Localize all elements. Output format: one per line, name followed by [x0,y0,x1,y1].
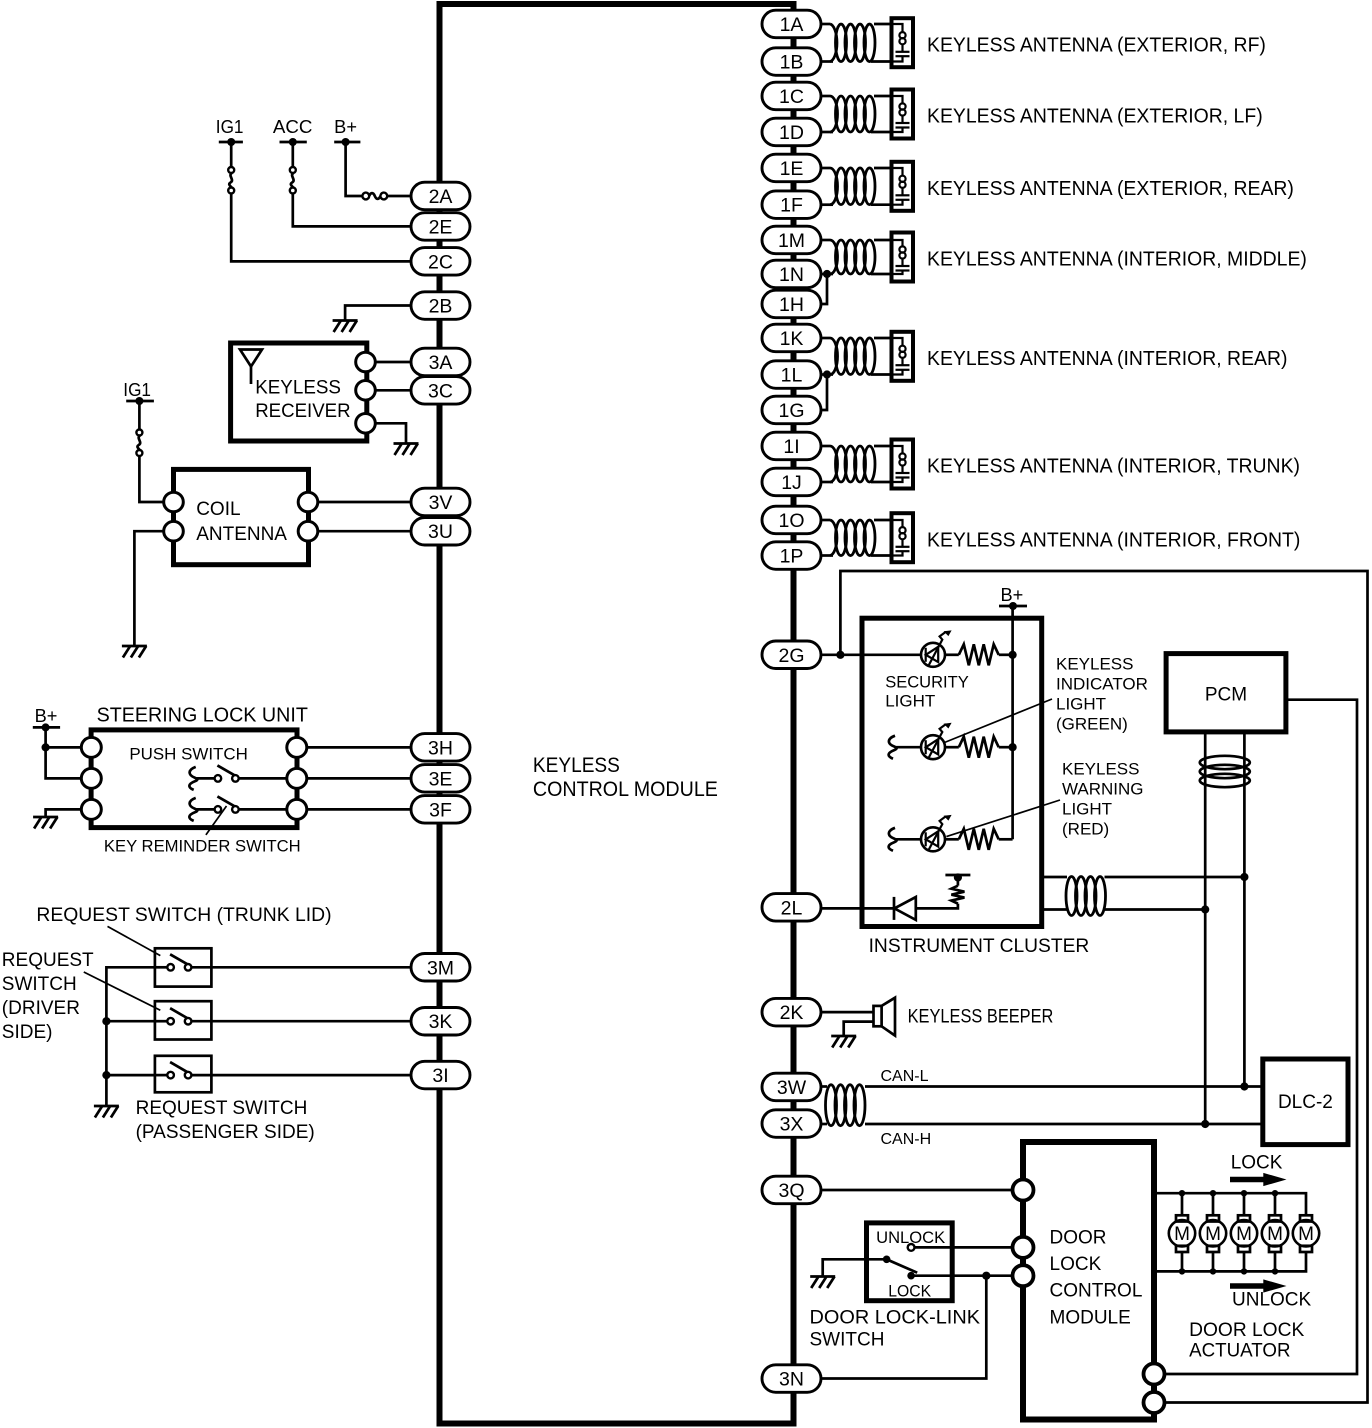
svg-text:3Q: 3Q [778,1180,804,1202]
callout indicator light [945,699,1053,743]
wire 3N to switch [821,1276,986,1379]
junction request passenger [102,1071,110,1079]
keyless antenna unit 4 [821,239,830,242]
junction row1 [1009,651,1017,659]
motor M3 [1243,1193,1246,1215]
PCM box [1166,654,1286,732]
svg-text:3N: 3N [779,1369,804,1391]
door lock-link switch box [867,1223,953,1301]
twisted pair coil PCM [1200,756,1250,769]
svg-text:DOOR LOCK: DOOR LOCK [1189,1320,1305,1341]
arrow unlock [1230,1279,1287,1292]
callout trunk lid [108,926,161,955]
svg-text:UNLOCK: UNLOCK [1232,1290,1312,1311]
wire PCM right [1165,700,1358,1374]
ground for beeper [831,1035,856,1038]
svg-text:(GREEN): (GREEN) [1056,714,1128,733]
svg-text:KEYLESS ANTENNA (INTERIOR, FRO: KEYLESS ANTENNA (INTERIOR, FRONT) [927,529,1300,551]
ground for coil antenna [122,645,147,648]
svg-text:CONTROL: CONTROL [1050,1281,1143,1302]
svg-text:SWITCH: SWITCH [810,1330,885,1351]
pin 3H [411,734,470,762]
junction 2G [836,651,844,659]
svg-text:LIGHT: LIGHT [1062,800,1112,819]
instrument cluster box [862,618,1042,926]
request switch trunk [155,966,167,969]
wire receiver to 3A [375,361,411,364]
svg-text:LIGHT: LIGHT [1056,694,1106,713]
pin 1H [762,290,821,318]
wire to 3H [307,746,411,749]
callout driver side [84,972,161,1010]
pin 2G [762,641,821,669]
svg-text:1M: 1M [778,230,805,252]
wire B+ to steering terminals [46,727,82,778]
svg-text:SECURITY: SECURITY [885,673,969,692]
keyless beeper [874,1006,882,1026]
twisted pair coil CAN [821,1085,827,1088]
push switch [189,767,197,790]
wire unlock contact to module [915,1246,1013,1249]
svg-text:KEYLESS: KEYLESS [1056,655,1134,674]
junction cluster bottom [1201,905,1209,913]
svg-text:1P: 1P [780,546,804,568]
svg-text:KEY REMINDER SWITCH: KEY REMINDER SWITCH [104,837,301,856]
request switch passenger box [155,1056,212,1093]
pin 1M [762,226,821,254]
wire bus to passenger switch [106,1074,154,1077]
wire 1L to 1G [821,375,827,411]
door module terminal right 2 [1144,1392,1165,1413]
svg-text:DOOR: DOOR [1050,1228,1107,1249]
ground for 2B [333,319,358,322]
wire to 3F [307,808,411,811]
svg-text:KEYLESS: KEYLESS [533,754,620,777]
svg-text:2L: 2L [781,897,803,919]
svg-text:REQUEST: REQUEST [2,950,94,971]
wire receiver to ground [375,423,406,442]
wire common to ground [823,1259,887,1275]
wire IG1 to 2C [231,194,411,262]
wire 2K to beeper [821,1011,874,1014]
svg-text:M: M [1174,1224,1190,1245]
steering terminal left 2 [81,768,101,788]
keyless antenna unit 3 [821,167,830,170]
keyless antenna unit 5 [821,337,830,340]
svg-text:KEYLESS: KEYLESS [255,378,341,399]
steering terminal right 2 [287,768,307,788]
callout warning light [946,800,1060,837]
steering terminal left 1 [81,737,101,757]
svg-text:1L: 1L [781,365,803,387]
svg-text:LOCK: LOCK [888,1281,932,1300]
svg-text:1I: 1I [783,436,799,458]
svg-text:M: M [1267,1224,1283,1245]
svg-text:DOOR LOCK-LINK: DOOR LOCK-LINK [810,1308,981,1329]
svg-text:3C: 3C [428,380,453,402]
junction 1N link [823,270,831,278]
pin 1I [762,432,821,460]
pin 1F [762,191,821,219]
junction row2 [1009,743,1017,751]
wire B+ into cluster [1011,606,1014,655]
DLC-2 box [1263,1059,1348,1145]
diode 2L [893,897,896,920]
antenna symbol [240,350,262,367]
junction request driver [102,1017,110,1025]
receiver terminal 2 [356,381,376,401]
svg-text:1G: 1G [778,400,804,422]
steering terminal left 3 [81,799,101,819]
wire IG1 to coil antenna [139,456,163,502]
door lock control module box [1023,1142,1154,1420]
coil antenna terminal right bottom [298,521,318,541]
wire to 3E [307,777,411,780]
svg-text:1C: 1C [779,86,804,108]
wire receiver to 3C [375,389,411,392]
coil antenna terminal left top [164,492,184,512]
coil antenna terminal right top [298,492,318,512]
resistor vertical cluster [951,886,964,904]
pin 1A [762,10,821,38]
wire LED supply bus [1011,655,1014,840]
steering terminal right 3 [287,799,307,819]
svg-text:3K: 3K [429,1011,453,1033]
actuator bottom bus [1154,1252,1306,1271]
wire B+ to fuse [346,142,363,196]
resistor keyless warning [944,838,959,841]
door module terminal 2 [1013,1237,1034,1258]
request switch passenger [155,1074,167,1077]
svg-text:IG1: IG1 [123,380,151,400]
svg-text:1D: 1D [779,122,804,144]
coil antenna box [174,469,309,564]
svg-text:1F: 1F [780,195,803,217]
svg-text:WARNING: WARNING [1062,780,1144,799]
wire coil antenna to ground [134,531,163,645]
pin 3C [411,377,470,405]
svg-text:ACTUATOR: ACTUATOR [1189,1341,1290,1362]
pin 1B [762,48,821,76]
junction 1L link [823,370,831,378]
pin 1L [762,361,821,389]
door module terminal 3 [1013,1265,1034,1286]
ground for door lock-link switch [810,1275,835,1278]
wire 2L to diode [821,907,894,910]
pin 1P [762,542,821,570]
steering lock unit box [91,730,297,828]
svg-text:2G: 2G [778,645,804,667]
svg-text:3A: 3A [429,352,453,374]
junction B+ branch [42,743,50,751]
pin 1O [762,506,821,534]
wire push switch to terminal [239,777,287,780]
pin 2C [411,248,470,276]
svg-text:1O: 1O [778,510,804,532]
wire 2G to cluster [821,653,922,656]
LED keyless warning [889,828,897,851]
wire steering to ground [46,809,82,816]
svg-text:CONTROL MODULE: CONTROL MODULE [533,778,718,801]
svg-text:M: M [1205,1224,1221,1245]
request switch driver [155,1020,167,1023]
actuator top bus [1154,1193,1306,1215]
pin 2L [762,894,821,922]
pin 3F [411,796,470,824]
svg-text:3W: 3W [777,1077,807,1099]
pin 2A [411,182,470,210]
lock contact [907,1272,915,1280]
pin 3A [411,348,470,376]
wire cluster to PCM bottom [1042,908,1067,911]
unlock contact [908,1244,915,1251]
callout key reminder [206,806,227,835]
pin 3M [411,954,470,982]
switch on IG1 feed [230,142,233,167]
switch lever door lock-link [883,1256,891,1264]
junction cluster top [1240,873,1248,881]
svg-text:3X: 3X [780,1114,804,1136]
twisted pair coil cluster [1066,877,1077,916]
LED security light [921,643,945,667]
svg-text:RECEIVER: RECEIVER [255,401,350,422]
svg-text:KEYLESS ANTENNA (INTERIOR, MID: KEYLESS ANTENNA (INTERIOR, MIDDLE) [927,249,1307,271]
svg-text:LIGHT: LIGHT [885,692,935,711]
pin 1E [762,154,821,182]
junction CAN-H [1201,1120,1209,1128]
wire CAN-H [865,1123,1263,1126]
svg-text:(DRIVER: (DRIVER [2,998,80,1019]
ground for receiver [394,442,419,445]
pin 3E [411,765,470,793]
keyless antenna unit 1 [821,23,830,26]
motor M4 [1274,1193,1277,1215]
terminal above resistor [957,879,960,886]
wire key reminder to terminal [239,808,287,811]
arrow lock [1230,1173,1287,1186]
svg-text:3V: 3V [429,492,453,514]
svg-text:2A: 2A [429,186,453,208]
resistor security light [944,653,959,656]
svg-text:(PASSENGER SIDE): (PASSENGER SIDE) [136,1122,315,1143]
svg-text:CAN-L: CAN-L [881,1068,929,1085]
svg-text:REQUEST SWITCH: REQUEST SWITCH [136,1098,308,1119]
svg-text:1J: 1J [781,472,802,494]
svg-text:KEYLESS ANTENNA (EXTERIOR, REA: KEYLESS ANTENNA (EXTERIOR, REAR) [927,178,1294,200]
keyless control module box [440,4,794,1424]
svg-text:1B: 1B [780,52,804,74]
keyless antenna unit 2 [821,95,830,98]
wire cluster to PCM top [1042,876,1067,879]
svg-text:PCM: PCM [1205,685,1247,706]
switch on coil antenna feed [138,401,141,430]
svg-text:KEYLESS BEEPER: KEYLESS BEEPER [908,1007,1054,1028]
svg-text:3I: 3I [432,1065,448,1087]
pin 3I [411,1061,470,1089]
svg-text:1N: 1N [779,264,804,286]
wire fuse to 2A [387,195,411,198]
svg-text:SWITCH: SWITCH [2,974,77,995]
svg-text:DLC-2: DLC-2 [1278,1092,1333,1113]
svg-text:KEYLESS ANTENNA (INTERIOR, TRU: KEYLESS ANTENNA (INTERIOR, TRUNK) [927,456,1300,478]
door module terminal right 1 [1144,1364,1165,1385]
door module terminal 1 [1013,1180,1034,1201]
junction CAN-L [1240,1082,1248,1090]
svg-text:2K: 2K [780,1002,804,1024]
receiver terminal 1 [356,352,376,372]
pin 3K [411,1008,470,1036]
pin 2E [411,213,470,241]
svg-text:3H: 3H [428,737,453,759]
svg-text:2E: 2E [429,216,453,238]
wire bus to driver switch [106,1020,154,1023]
pin 1C [762,82,821,110]
wire diode to resistor [916,904,958,909]
svg-text:(RED): (RED) [1062,820,1109,839]
svg-text:STEERING LOCK UNIT: STEERING LOCK UNIT [97,705,308,727]
wire coil antenna to 3V [318,501,411,504]
svg-text:3F: 3F [429,799,452,821]
request switch trunk box [155,948,212,986]
wire 2B to ground [345,306,411,320]
svg-text:1K: 1K [780,328,804,350]
svg-text:M: M [1298,1224,1314,1245]
key reminder switch [189,798,197,821]
pin 2B [411,292,470,320]
request switch driver box [155,1001,212,1039]
svg-text:INDICATOR: INDICATOR [1056,675,1148,694]
svg-text:PUSH SWITCH: PUSH SWITCH [129,745,247,764]
svg-text:KEYLESS: KEYLESS [1062,760,1140,779]
ground for steering lock [33,816,58,819]
svg-text:COIL: COIL [196,499,240,520]
pin 3N [762,1365,821,1393]
resistor keyless indicator [944,746,959,749]
svg-text:INSTRUMENT CLUSTER: INSTRUMENT CLUSTER [869,936,1090,957]
svg-text:LOCK: LOCK [1231,1153,1283,1174]
svg-text:KEYLESS ANTENNA (EXTERIOR, LF): KEYLESS ANTENNA (EXTERIOR, LF) [927,106,1263,128]
svg-text:CAN-H: CAN-H [881,1131,932,1148]
svg-text:3M: 3M [427,957,454,979]
svg-text:1H: 1H [779,294,804,316]
motor M5 [1300,1215,1312,1221]
PCM twisted pair legs [1204,732,1207,1124]
fuse on 2A feed [362,193,369,200]
wire 2G riser to right edge [840,571,1367,1403]
pin 3Q [762,1176,821,1204]
keyless receiver box [231,343,367,441]
ground for request switches [94,1105,119,1108]
wire beeper to ground [844,1022,874,1035]
svg-text:3E: 3E [429,768,453,790]
wire lock contact to module [911,1274,1012,1277]
svg-text:SIDE): SIDE) [2,1022,53,1043]
svg-text:1E: 1E [780,158,804,180]
svg-text:2B: 2B [429,296,453,318]
motor M1 [1181,1193,1184,1215]
wire coil antenna to 3U [318,530,411,533]
pin 3X [762,1110,821,1138]
svg-text:LOCK: LOCK [1050,1254,1102,1275]
coil antenna terminal left bottom [164,521,184,541]
svg-text:KEYLESS ANTENNA (EXTERIOR, RF): KEYLESS ANTENNA (EXTERIOR, RF) [927,34,1266,56]
keyless antenna unit 6 [821,445,830,448]
pin 1N [762,260,821,288]
pin 1K [762,324,821,352]
wire ACC to 2E [293,194,411,227]
wire 3Q to door module [821,1189,1013,1192]
pin 3W [762,1073,821,1101]
svg-text:IG1: IG1 [216,117,244,137]
junction 3N branch [982,1272,990,1280]
svg-text:MODULE: MODULE [1050,1307,1131,1328]
receiver terminal 3 [356,414,376,434]
svg-text:M: M [1236,1224,1252,1245]
switch on ACC feed [291,142,294,167]
keyless antenna unit 7 [821,519,830,522]
pin 1J [762,468,821,496]
svg-text:3U: 3U [428,521,453,543]
LED keyless indicator [889,736,897,759]
svg-text:B+: B+ [1001,585,1024,605]
pin 3U [411,518,470,546]
pin 3V [411,488,470,516]
svg-text:2C: 2C [428,251,453,273]
pin 1D [762,118,821,146]
svg-text:B+: B+ [334,117,357,137]
svg-text:KEYLESS ANTENNA (INTERIOR, REA: KEYLESS ANTENNA (INTERIOR, REAR) [927,348,1288,370]
svg-text:ACC: ACC [273,117,313,137]
pin 1G [762,396,821,424]
svg-text:REQUEST SWITCH (TRUNK LID): REQUEST SWITCH (TRUNK LID) [36,905,331,926]
svg-text:1A: 1A [780,14,804,36]
svg-text:B+: B+ [35,706,58,726]
steering terminal right 1 [287,737,307,757]
motor M2 [1212,1193,1215,1215]
wire 1N to 1H [821,274,827,304]
svg-text:ANTENNA: ANTENNA [196,524,287,545]
wire request bus [106,967,154,1105]
wire CAN-L [865,1085,1263,1088]
pin 2K [762,998,821,1026]
